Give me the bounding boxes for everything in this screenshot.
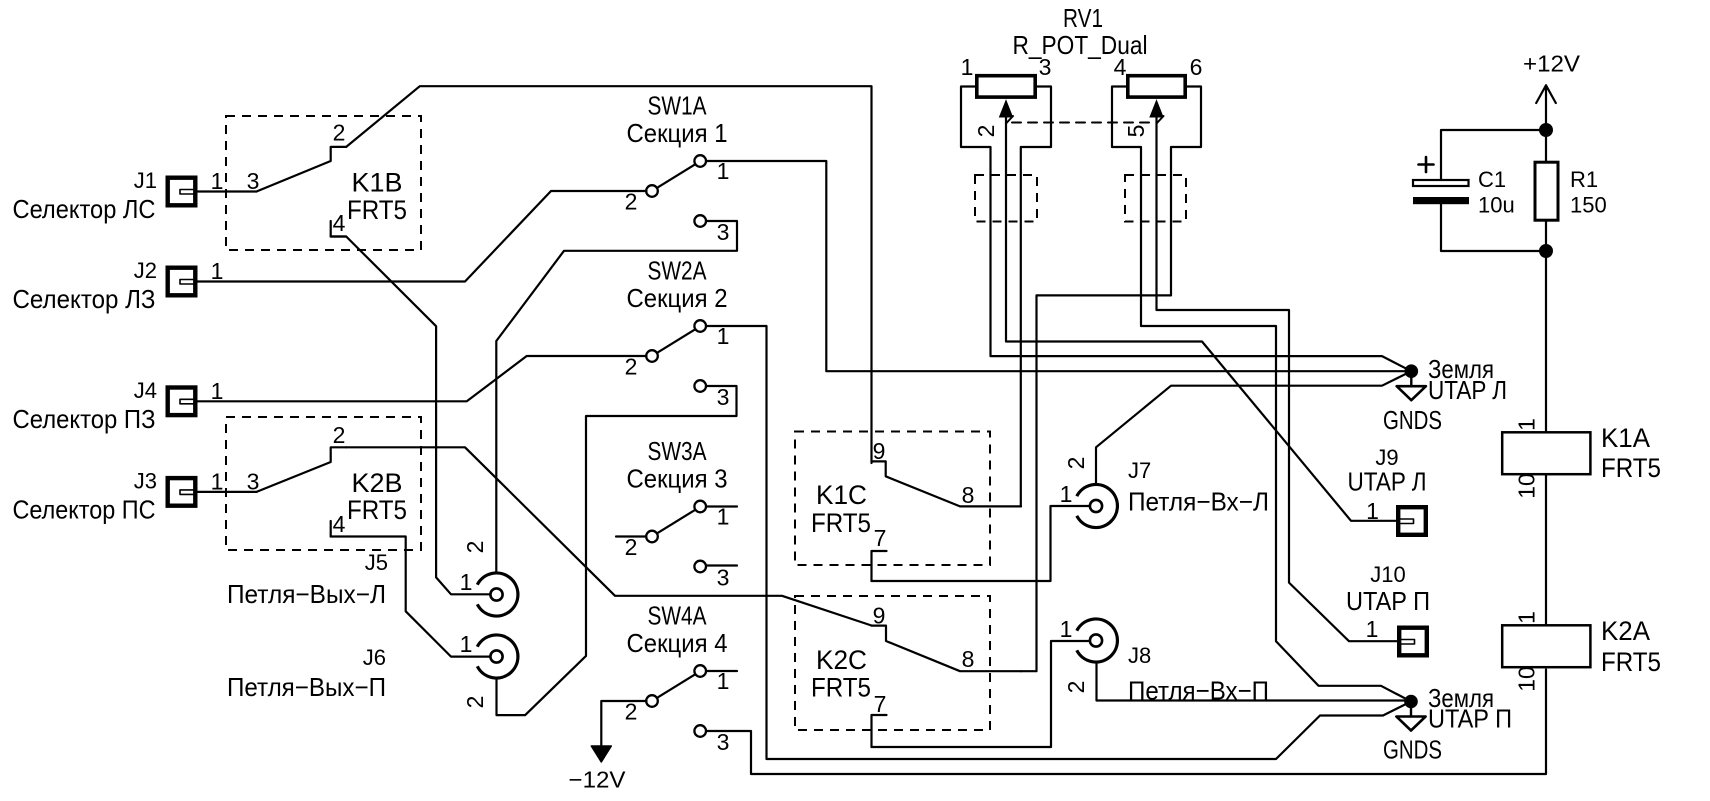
svg-text:Секция 4: Секция 4 [627, 628, 728, 658]
svg-text:UTAP Л: UTAP Л [1348, 467, 1427, 497]
wire J1 pin1 to K1B pin3 [198, 190, 257, 192]
svg-text:8: 8 [962, 646, 975, 672]
mechanical link RV1 wipers [1012, 122, 1150, 124]
svg-text:1: 1 [460, 569, 473, 595]
svg-text:3: 3 [717, 219, 730, 245]
wire SW2A pin3 to J6 pin2 [497, 386, 737, 715]
svg-text:1: 1 [211, 168, 224, 194]
relay contact K1C dashed box [795, 432, 990, 566]
wire J2 to SW1A pin2 [198, 191, 647, 282]
svg-text:2: 2 [625, 354, 638, 380]
svg-text:UTAP Л: UTAP Л [1428, 375, 1507, 405]
wire J7 pin2 to ground UTAP L [1096, 371, 1411, 483]
wire RV1 pin4 to ground UTAP P [1112, 87, 1411, 702]
relay contact K2B dashed box [226, 417, 421, 550]
svg-text:10: 10 [1514, 473, 1540, 499]
svg-text:R_POT_Dual: R_POT_Dual [1013, 30, 1148, 60]
svg-text:1: 1 [1060, 481, 1073, 507]
svg-text:GNDS: GNDS [1383, 735, 1442, 765]
svg-text:2: 2 [973, 125, 999, 138]
wire K1A pin10 to K2A pin1 [1545, 476, 1547, 626]
svg-text:Селектор ПС: Селектор ПС [13, 494, 156, 524]
connector J3 [168, 478, 196, 506]
power -12V [591, 746, 611, 762]
svg-text:C1: C1 [1478, 167, 1506, 192]
wire J8 pin2 to ground UTAP P [1097, 663, 1412, 701]
svg-text:J1: J1 [134, 168, 157, 193]
svg-text:GNDS: GNDS [1383, 405, 1442, 435]
svg-text:R1: R1 [1570, 167, 1598, 192]
dashed box RV1 section B wires [1125, 175, 1186, 222]
potentiometer RV1 section A body [977, 76, 1035, 97]
svg-text:−12V: −12V [569, 767, 627, 793]
relay contact K1B dashed box [226, 116, 421, 250]
wire K1B pin4 to J5 pin1 [331, 237, 490, 595]
svg-text:3: 3 [717, 384, 730, 410]
svg-text:Петля−Вых−П: Петля−Вых−П [227, 672, 386, 702]
wire C1 to junction [1441, 204, 1546, 251]
connector J4 [168, 388, 196, 416]
svg-text:FRT5: FRT5 [811, 673, 871, 703]
wire K2C pin7 to J8 pin1 [872, 641, 1090, 747]
relay contact K2C dashed box [795, 596, 990, 730]
switch arm K1C [872, 461, 1022, 506]
wire K1C pin7 to J7 pin1 [872, 506, 1090, 581]
pin stub SW4A pin1 [707, 670, 738, 672]
junction bottom [1539, 244, 1553, 258]
switch SW2A [694, 320, 706, 332]
wire J3 pin1 to K2B pin3 [198, 491, 257, 493]
wire J4 to SW2A pin2 [198, 356, 647, 401]
power +12V [1536, 85, 1556, 130]
svg-text:+12V: +12V [1523, 51, 1581, 77]
svg-text:Селектор ЛЗ: Селектор ЛЗ [13, 284, 156, 314]
svg-text:J4: J4 [134, 378, 157, 403]
pin stub SW3A pin2 [616, 535, 646, 537]
pin 7 K1C mark [872, 551, 887, 581]
capacitor C1 [1413, 180, 1469, 186]
wire RV1 pin3 to K1C pin8 [1021, 87, 1051, 507]
svg-text:1: 1 [1366, 498, 1379, 524]
wire RV1 pin1 to ground UTAP L [961, 87, 1411, 372]
pin 4 K1B mark [331, 221, 347, 237]
svg-text:2: 2 [462, 696, 488, 709]
wire RV1 pin5 to J10 [1157, 112, 1398, 641]
switch SW4A [694, 665, 706, 677]
connector J1 [168, 178, 196, 206]
wire +12V to C1 [1441, 130, 1546, 180]
svg-text:3: 3 [717, 729, 730, 755]
svg-text:9: 9 [873, 438, 886, 464]
svg-text:J7: J7 [1128, 458, 1151, 483]
svg-text:8: 8 [962, 482, 975, 508]
wire SW1A pin3 to J5 pin2 [496, 221, 737, 572]
wire K2B pin2 to K2C pin9 [346, 447, 871, 625]
svg-text:Петля−Вых−Л: Петля−Вых−Л [227, 579, 386, 609]
svg-text:Петля−Вх−Л: Петля−Вх−Л [1128, 487, 1269, 517]
svg-text:2: 2 [333, 422, 346, 448]
wire junction to K1A pin1 [1545, 251, 1547, 431]
relay coil K1A [1502, 432, 1590, 474]
svg-text:2: 2 [625, 189, 638, 215]
svg-text:1: 1 [1366, 616, 1379, 642]
wire SW1A pin1 to ground UTAP L [707, 161, 1412, 371]
svg-text:FRT5: FRT5 [347, 495, 407, 525]
svg-text:2: 2 [462, 541, 488, 554]
dashed box RV1 section A wires [975, 175, 1037, 222]
svg-text:SW4A: SW4A [648, 601, 708, 631]
svg-text:2: 2 [1063, 681, 1089, 694]
switch arm K1B [257, 147, 347, 192]
svg-text:FRT5: FRT5 [1601, 453, 1661, 483]
potentiometer RV1 section B wiper arrow [1150, 101, 1163, 118]
svg-text:1: 1 [961, 54, 974, 80]
svg-text:SW1A: SW1A [648, 91, 708, 121]
pin 7 K2C mark [872, 715, 887, 747]
svg-text:K1A: K1A [1601, 423, 1650, 453]
pin stub SW3A pin3 [707, 564, 738, 566]
connector J9 [1398, 507, 1426, 535]
svg-text:K1C: K1C [816, 480, 867, 510]
svg-text:5: 5 [1123, 125, 1149, 138]
connector J6 BNC [477, 635, 518, 678]
svg-text:FRT5: FRT5 [811, 508, 871, 538]
svg-text:10u: 10u [1478, 193, 1515, 218]
relay coil K2A [1502, 625, 1590, 667]
svg-text:Секция 3: Секция 3 [627, 464, 728, 494]
svg-text:2: 2 [625, 534, 638, 560]
svg-text:1: 1 [1060, 616, 1073, 642]
svg-text:Секция 2: Секция 2 [627, 283, 728, 313]
wire K1B pin2 to K1C pin9 [346, 86, 871, 463]
svg-text:Селектор ПЗ: Селектор ПЗ [13, 404, 156, 434]
svg-text:2: 2 [333, 120, 346, 146]
svg-text:UTAP П: UTAP П [1346, 586, 1430, 616]
svg-text:3: 3 [1039, 54, 1052, 80]
switch arm K2C [872, 626, 1022, 672]
svg-text:1: 1 [460, 631, 473, 657]
svg-text:Секция 1: Секция 1 [627, 118, 728, 148]
svg-text:3: 3 [717, 565, 730, 591]
svg-text:2: 2 [1063, 457, 1089, 470]
svg-text:RV1: RV1 [1063, 3, 1103, 33]
svg-text:J5: J5 [365, 550, 388, 575]
svg-text:FRT5: FRT5 [347, 195, 407, 225]
svg-text:1: 1 [211, 258, 224, 284]
wire SW2A pin1 to ground UTAP P [707, 326, 1412, 759]
connector J10 [1399, 628, 1427, 656]
svg-text:J2: J2 [134, 258, 157, 283]
svg-text:1: 1 [1514, 611, 1540, 624]
svg-text:SW3A: SW3A [648, 436, 708, 466]
wire SW4A pin3 to K2A pin10 [707, 670, 1547, 775]
svg-text:1: 1 [211, 378, 224, 404]
svg-text:UTAP П: UTAP П [1428, 704, 1512, 734]
junction top [1539, 123, 1553, 137]
switch SW3A [694, 501, 706, 513]
ground GNDS UTAP P [1404, 695, 1418, 709]
wire K2B pin4 to J6 pin1 [331, 537, 490, 657]
connector J7 BNC [1077, 485, 1118, 528]
ground GNDS UTAP L [1405, 364, 1419, 378]
svg-text:K2C: K2C [816, 645, 867, 675]
svg-text:J10: J10 [1370, 562, 1405, 587]
svg-text:1: 1 [1514, 418, 1540, 431]
svg-text:J6: J6 [363, 645, 386, 670]
potentiometer RV1 section A wiper arrow [1000, 101, 1013, 118]
switch arm K2B [257, 447, 347, 492]
svg-text:4: 4 [333, 210, 346, 236]
svg-text:150: 150 [1570, 193, 1607, 218]
svg-text:6: 6 [1190, 54, 1203, 80]
potentiometer RV1 section B body [1128, 76, 1185, 97]
svg-text:J3: J3 [134, 468, 157, 493]
resistor R1 [1535, 162, 1558, 220]
svg-text:FRT5: FRT5 [1601, 647, 1661, 677]
pin stub SW3A pin1 [707, 505, 738, 507]
svg-text:K1B: K1B [352, 168, 403, 198]
svg-text:K2B: K2B [352, 468, 403, 498]
svg-text:10: 10 [1514, 666, 1540, 692]
connector J2 [168, 268, 196, 296]
wire junction to R1 [1545, 130, 1547, 251]
pin 4 K2B mark [330, 521, 332, 537]
svg-text:K2A: K2A [1601, 616, 1650, 646]
connector J8 BNC [1077, 619, 1118, 662]
svg-text:2: 2 [625, 699, 638, 725]
wire RV1 pin2 to J9 [1006, 112, 1396, 521]
svg-text:4: 4 [1114, 54, 1127, 80]
svg-text:SW2A: SW2A [648, 256, 708, 286]
wire RV1 pin6 to K2C pin8 [1021, 87, 1201, 672]
svg-text:4: 4 [333, 511, 346, 537]
wire SW4A pin2 to -12V [601, 701, 646, 746]
svg-text:J8: J8 [1128, 643, 1151, 668]
svg-text:Селектор ЛС: Селектор ЛС [13, 194, 156, 224]
svg-text:1: 1 [211, 468, 224, 494]
switch SW1A [694, 155, 706, 167]
connector J5 BNC [477, 573, 518, 616]
svg-text:7: 7 [874, 691, 887, 717]
svg-text:7: 7 [874, 525, 887, 551]
